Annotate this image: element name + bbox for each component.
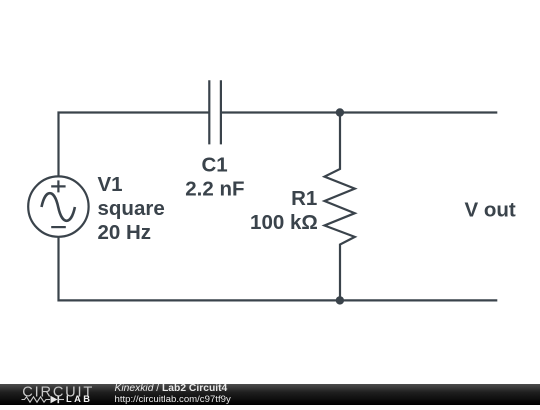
capacitor C1 (two vertical plates) xyxy=(209,80,221,144)
label R1 name and value (R1 / 100 kOhm) xyxy=(250,187,318,234)
resistor R1 (vertical zigzag with leads) xyxy=(325,113,355,301)
svg-text:100 kΩ: 100 kΩ xyxy=(250,211,318,234)
wire W3: V1 bottom terminal down and right to node B and output (bottom rail) xyxy=(59,237,498,301)
svg-text:http://circuitlab.com/c97tf9y: http://circuitlab.com/c97tf9y xyxy=(115,394,231,405)
svg-text:R1: R1 xyxy=(291,187,317,210)
label V1 name and values (V1 / square / 20 Hz) xyxy=(98,173,165,244)
node B (junction of R1 and bottom rail) xyxy=(336,296,344,304)
label C1 name and value (C1 / 2.2 nF) xyxy=(185,154,244,201)
svg-text:V out: V out xyxy=(465,199,516,222)
svg-text:square: square xyxy=(98,197,165,220)
CircuitLab logo: resistor zigzag lead-in xyxy=(22,397,51,402)
svg-text:20 Hz: 20 Hz xyxy=(98,221,152,244)
wire W1: V1 top terminal up and right to C1 left plate xyxy=(59,113,210,178)
footer bar xyxy=(0,384,540,405)
svg-text:LAB: LAB xyxy=(66,394,92,404)
wire W2: C1 right plate to node A and on to output (top rail) xyxy=(221,111,497,113)
svg-text:C1: C1 xyxy=(201,154,227,177)
node A (junction of C1, R1, top rail) xyxy=(336,108,344,116)
voltage source V1 (circle with sine, + and - marks) xyxy=(28,176,88,236)
svg-text:2.2 nF: 2.2 nF xyxy=(185,178,244,201)
CircuitLab logo: diode symbol xyxy=(51,396,58,403)
svg-text:Kinexkid / Lab2 Circuit4: Kinexkid / Lab2 Circuit4 xyxy=(115,384,228,394)
svg-text:V1: V1 xyxy=(98,173,123,196)
